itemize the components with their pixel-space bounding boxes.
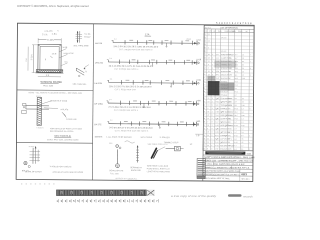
svg-text:a true copy of one of the qual: a true copy of one of the quality [171,194,217,198]
svg-text:¾ BOLTS: ¾ BOLTS [36,126,44,129]
svg-text:2: 2 [212,125,213,127]
svg-text:6: 6 [204,81,205,83]
svg-text:SCALE: HALF SIZE, LOOKING DOWN: SCALE: HALF SIZE, LOOKING DOWN [47,138,79,141]
svg-text:9: 9 [204,121,205,123]
svg-text:2: 2 [204,128,205,130]
svg-text:12: 12 [207,142,209,144]
svg-text:7: 7 [204,145,205,147]
svg-text:SEE DRAWING No. 4122-A: SEE DRAWING No. 4122-A [50,130,74,133]
svg-text:4: 4 [211,145,212,147]
svg-text:4121: 4121 [247,154,253,156]
svg-text:3-54: 3-54 [215,115,218,117]
handwritten microfilm annotation [171,194,253,198]
detail figure: eye rod [109,145,124,176]
svg-text:SAFETY CHAIN & WIRE ROPE DETAI: SAFETY CHAIN & WIRE ROPE DETAILS – PASS.… [204,156,255,159]
wire run row 4 (LH-17B1) [94,99,200,113]
svg-text:8: 8 [212,121,213,123]
svg-text:1.2: 1.2 [242,75,244,77]
svg-text:DRAWN J.E.S. TRACED M.K. CHECK: DRAWN J.E.S. TRACED M.K. CHECKED R.M. AP… [204,166,250,169]
svg-text:8: 8 [211,148,212,150]
svg-text:.55: .55 [241,142,243,144]
svg-text:1.2: 1.2 [241,122,243,124]
svg-text:13: 13 [207,105,209,107]
svg-text:B-12: B-12 [234,118,237,120]
svg-text:11: 11 [208,34,210,36]
panel A jamb detail [73,31,91,47]
svg-text:SPLICE: SPLICE [221,37,226,39]
svg-text:2: 2 [212,68,213,70]
svg-text:9-44: 9-44 [215,142,218,144]
svg-text:B-12: B-12 [235,85,238,87]
svg-text:COPYRIGHT © 2004 NPRHA, John A: COPYRIGHT © 2004 NPRHA, John A. Stephens… [17,5,89,8]
svg-text:EACH END: EACH END [131,169,141,172]
svg-text:SCALE NOTED DATE 6-14-37 APP: SCALE NOTED DATE 6-14-37 APPR. C.H.B. [204,170,241,173]
svg-text:4: 4 [208,67,209,69]
panel A sill section [36,70,63,73]
lower area note line [95,133,203,139]
svg-text:CUT 2 REQD SEE NOTE 4: CUT 2 REQD SEE NOTE 4 [114,69,138,71]
svg-text:SEC. THRU SILL: SEC. THRU SILL [73,84,87,86]
svg-text:SERVING AT: SERVING AT [130,166,142,169]
svg-text:1.2: 1.2 [242,71,244,73]
svg-text:LH21: LH21 [196,121,201,123]
svg-text:B-12: B-12 [234,135,237,137]
svg-text:4: 4 [204,135,205,137]
svg-text:2: 2 [204,67,205,69]
svg-text:8-54: 8-54 [215,135,218,137]
detail figure: heavy pen mark [152,147,166,159]
svg-text:3.4: 3.4 [242,112,244,114]
svg-text:DETAIL OF CATCH: DETAIL OF CATCH [25,170,42,173]
svg-text:CRS: CRS [229,68,232,70]
svg-text:13: 13 [207,118,209,120]
svg-text:1. ALL ENDS TO BE SERVED: 1. ALL ENDS TO BE SERVED [106,136,132,139]
svg-text:2'-11¼: 2'-11¼ [30,54,33,60]
svg-text:1.2: 1.2 [241,145,243,147]
svg-text:SASH STOP: SASH STOP [63,52,74,55]
svg-text:LH-17B1: LH-17B1 [94,104,103,106]
svg-text:2: 2 [212,57,213,59]
svg-text:15: 15 [208,98,210,100]
parts list table [203,26,254,151]
svg-text:WITH TWINE: WITH TWINE [141,137,153,139]
svg-text:5: 5 [205,47,206,49]
svg-text:2.08: 2.08 [242,78,245,80]
svg-text:7: 7 [205,54,206,56]
svg-text:1.2: 1.2 [241,128,243,130]
svg-text:B-12: B-12 [235,91,238,93]
svg-text:23: 23 [207,138,209,140]
secondary note marks [109,141,193,181]
svg-text:20: 20 [207,115,209,117]
svg-text:⅝ ROD: ⅝ ROD [29,145,35,148]
svg-text:PLOW STEEL, RIGHT LAY: PLOW STEEL, RIGHT LAY [147,167,171,170]
panel A frame elevation drawing [26,29,75,87]
svg-text:STL: STL [228,135,231,137]
panel B mullion section detail [21,91,83,141]
svg-text:APPLIES AT EACH SIDE OF DOOR: APPLIES AT EACH SIDE OF DOOR [52,171,83,174]
svg-text:4121: 4121 [241,172,247,176]
svg-text:ST. PAUL, MINN. SHOPS ORD. 22: ST. PAUL, MINN. SHOPS ORD. 2214 CL B 6-3… [204,163,245,166]
detail figure: clip and thimble [164,142,184,151]
svg-text:3: 3 [212,108,213,110]
svg-text:SIZE: SIZE [218,31,221,33]
svg-text:2. SOLDER: 2. SOLDER [160,137,171,139]
svg-text:8: 8 [205,57,206,59]
svg-text:4: 4 [204,105,205,107]
photographic scale ruler bar [56,190,155,196]
svg-text:8: 8 [212,71,213,73]
svg-text:B-12: B-12 [235,71,238,73]
svg-text:24: 24 [207,135,209,137]
left column horizontal divider 2 [16,142,92,145]
svg-text:2'-1¾: 2'-1¾ [42,33,47,36]
svg-text:5: 5 [207,128,208,130]
svg-text:LH18: LH18 [196,59,201,61]
svg-text:3: 3 [204,71,205,73]
svg-text:2.08: 2.08 [241,115,244,117]
svg-text:3: 3 [212,101,213,103]
svg-text:8-29: 8-29 [215,132,218,134]
svg-text:3.4: 3.4 [241,149,243,151]
svg-text:3.4: 3.4 [242,68,244,70]
svg-text:3: 3 [204,101,205,103]
svg-text:LH20: LH20 [196,100,201,102]
wire run row 1 (LH-17A) [95,38,201,52]
svg-text:3-17: 3-17 [215,121,218,123]
svg-text:4: 4 [211,142,212,144]
svg-text:LH-17B: LH-17B [95,83,103,85]
svg-text:CUT 1 REQD PER CAR: CUT 1 REQD PER CAR [115,88,137,91]
svg-text:STL: STL [229,58,232,60]
svg-text:CRS: CRS [229,105,232,107]
svg-text:CRS: CRS [229,98,232,100]
svg-text:1-49: 1-49 [216,68,219,70]
svg-text:1: 1 [212,61,213,63]
svg-text:3-37: 3-37 [216,105,219,107]
svg-text:SPLICE: SPLICE [221,51,226,53]
svg-text:4: 4 [204,74,205,76]
svg-text:5-28: 5-28 [216,111,219,113]
svg-text:4-15: 4-15 [216,57,219,59]
svg-text:9: 9 [205,61,206,63]
svg-text:STL: STL [228,125,231,127]
svg-text:CUT 1 REQD PER CAR SEE NOTE 3: CUT 1 REQD PER CAR SEE NOTE 3 [119,48,152,51]
svg-text:⅛ GLASS: ⅛ GLASS [44,30,53,33]
svg-text:CRS: CRS [228,149,231,151]
svg-text:CRS: CRS [229,101,232,103]
svg-text:LH17: LH17 [197,40,202,42]
svg-text:19: 19 [207,111,209,113]
svg-text:10: 10 [207,101,209,103]
svg-text:EYE BOLT: EYE BOLT [221,91,228,93]
svg-text:2: 2 [208,47,209,49]
svg-text:LIST OF MATERIAL: LIST OF MATERIAL [220,26,239,29]
svg-text:1: 1 [204,94,205,96]
svg-text:WT: WT [246,31,248,33]
svg-text:.55: .55 [242,98,244,100]
svg-text:9-41: 9-41 [216,74,219,76]
svg-text:SH 1 OF 1: SH 1 OF 1 [242,179,250,181]
svg-text:STL: STL [228,118,231,120]
svg-text:G.N.RY. MECH. DEPT. ST. PAUL: G.N.RY. MECH. DEPT. ST. PAUL [204,177,230,180]
svg-text:18: 18 [208,54,210,56]
svg-text:NO PCS: NO PCS [205,27,211,29]
svg-text:2: 2 [212,118,213,120]
svg-text:LH-17C: LH-17C [94,124,102,126]
svg-text:7: 7 [204,115,205,117]
svg-text:8: 8 [212,132,213,134]
svg-text:8: 8 [204,118,205,120]
svg-text:SEC. THRU JAMB: SEC. THRU JAMB [73,44,89,47]
svg-text:2: 2 [212,64,213,66]
svg-text:DETAIL OF EYE: DETAIL OF EYE [109,169,124,172]
svg-text:APPROX 40'-6 OVER ALL: APPROX 40'-6 OVER ALL [115,177,137,180]
svg-text:.55: .55 [242,58,244,60]
svg-text:SUPERSEDES DWG 3987 FILE 17-A: SUPERSEDES DWG 3987 FILE 17-A REV. C [204,173,240,176]
svg-text:¾ DR: ¾ DR [62,46,67,49]
svg-text:6: 6 [204,111,205,113]
svg-text:STRAP: STRAP [84,36,91,39]
callout 17A above row 1 [145,33,192,40]
svg-text:6-29: 6-29 [216,71,219,73]
left column horizontal divider 1 [17,89,93,92]
svg-text:STL: STL [228,122,231,124]
svg-text:LH19: LH19 [196,80,201,82]
svg-text:5 4 8 3 0 1 6 4 2 9 7 5 3 8: 5 4 8 3 0 1 6 4 2 9 7 5 3 8 [216,23,252,25]
faint tick residue below border [21,183,55,186]
svg-text:6: 6 [204,142,205,144]
svg-text:6: 6 [212,115,213,117]
svg-text:1: 1 [205,64,206,66]
svg-text:CRS: CRS [229,74,232,76]
svg-text:1: 1 [211,138,212,140]
svg-text:21: 21 [208,61,210,63]
svg-text:6-49: 6-49 [215,125,218,127]
svg-text:LENGTHS AS TABULATED: LENGTHS AS TABULATED [147,170,171,173]
svg-text:5: 5 [204,78,205,80]
svg-text:3: 3 [205,40,206,42]
drawing sheet border [16,23,254,181]
svg-text:LH-17A: LH-17A [95,42,103,45]
panel C fastener detail [22,145,84,174]
svg-text:Q-1: Q-1 [235,105,238,107]
svg-text:Q-1: Q-1 [234,149,237,151]
svg-text:FULL SIZE: FULL SIZE [110,173,120,175]
svg-text:15: 15 [207,132,209,134]
svg-text:4: 4 [205,44,206,46]
svg-text:N: N [206,31,207,33]
svg-text:3.4: 3.4 [242,61,244,63]
ruler number row [57,199,159,203]
svg-text:5: 5 [204,108,205,110]
svg-text:9: 9 [204,91,205,93]
svg-text:4-35: 4-35 [216,101,219,103]
svg-text:CUT 1 REQD PER CAR SEE NOTE 5: CUT 1 REQD PER CAR SEE NOTE 5 [115,129,148,132]
svg-text:2-4: 2-4 [110,120,113,122]
svg-text:7: 7 [204,84,205,86]
svg-text:5: 5 [204,138,205,140]
svg-text:3-58: 3-58 [216,78,219,80]
svg-text:THIMBLE & CLIP: THIMBLE & CLIP [164,142,179,144]
svg-text:14: 14 [208,57,210,59]
svg-text:7: 7 [207,121,208,123]
svg-text:2'-6: 2'-6 [26,59,28,62]
svg-text:13: 13 [208,41,210,43]
svg-text:5: 5 [211,135,212,137]
svg-text:3.4: 3.4 [241,132,243,134]
svg-text:.55: .55 [241,139,243,141]
svg-text:RAIL: RAIL [64,60,68,63]
svg-text:4-43: 4-43 [215,145,218,147]
svg-text:19: 19 [208,71,210,73]
svg-text:5: 5 [212,128,213,130]
svg-text:9: 9 [207,148,208,150]
svg-text:3'-10¼: 3'-10¼ [47,39,54,42]
svg-text:QT: QT [214,31,216,33]
svg-text:.55: .55 [242,101,244,103]
svg-text:8: 8 [204,88,205,90]
svg-text:2: 2 [205,37,206,39]
svg-text:FULL SIZE: FULL SIZE [43,85,54,87]
svg-text:CUT 2 REQD SEE NOTE 4: CUT 2 REQD SEE NOTE 4 [114,110,138,112]
svg-text:NOTES:: NOTES: [95,136,103,138]
svg-text:3.4: 3.4 [241,135,243,137]
svg-text:WIRE ROPE ⅝ DIA 6x19: WIRE ROPE ⅝ DIA 6x19 [147,165,168,168]
svg-text:2-4: 2-4 [114,39,117,41]
svg-text:⅜ RIVETS 3″ CTRS: ⅜ RIVETS 3″ CTRS [50,100,68,102]
svg-text:2.08: 2.08 [241,125,244,127]
svg-text:6-47: 6-47 [216,54,219,56]
svg-text:B-12: B-12 [235,81,238,83]
title block [203,151,256,181]
svg-text:SERIES 1100 – LETTERED EQUIPT: SERIES 1100 – LETTERED EQUIPT – ORD 2214… [204,160,253,162]
svg-text:POST: POST [36,96,41,98]
left column divider [92,24,93,180]
svg-text:5: 5 [208,64,209,66]
wire run row 3 (LH-17B) [95,78,201,92]
svg-text:1: 1 [205,34,206,36]
svg-text:Q-1: Q-1 [234,138,237,140]
svg-text:3: 3 [204,131,205,133]
svg-text:Ⅱ: Ⅱ [45,59,46,61]
svg-text:B-12: B-12 [235,108,238,110]
svg-text:18: 18 [207,125,209,127]
svg-text:2-4: 2-4 [109,99,112,101]
svg-text:1: 1 [204,125,205,127]
svg-text:2-4: 2-4 [109,58,112,60]
svg-text:8: 8 [207,108,208,110]
svg-text:3: 3 [212,111,213,113]
svg-text:1.2: 1.2 [242,108,244,110]
svg-text:8: 8 [204,148,205,150]
svg-text:6: 6 [212,98,213,100]
boxed note left of title block [197,159,206,179]
svg-text:24: 24 [207,145,209,147]
svg-text:FLOOR LINE: FLOOR LINE [66,119,78,121]
svg-text:2: 2 [212,54,213,56]
svg-text:17A: 17A [145,33,150,36]
svg-text:1.2: 1.2 [242,54,244,56]
svg-text:LH-17A1: LH-17A1 [95,61,104,64]
panel A sill detail [73,65,89,86]
detail figure: served end [130,145,142,172]
svg-text:CRS: CRS [228,115,231,117]
lower notes block [147,165,171,174]
table area divider [203,25,204,181]
svg-text:2-4: 2-4 [110,78,113,80]
svg-text:CRS: CRS [228,128,231,130]
svg-text:3.4: 3.4 [242,64,244,66]
svg-text:Q-1: Q-1 [235,74,238,76]
svg-text:1.2: 1.2 [241,118,243,120]
svg-text:2: 2 [204,98,205,100]
svg-text:B-12: B-12 [234,125,237,127]
svg-text:¼ PLATE: ¼ PLATE [60,108,69,111]
svg-text:6: 6 [205,51,206,53]
svg-text:THIMBLE: THIMBLE [221,95,228,97]
svg-text:B-12: B-12 [234,142,237,144]
svg-text:5-22: 5-22 [215,148,218,150]
svg-text:5: 5 [212,105,213,107]
svg-text:records: records [243,194,253,198]
wire run row 2 (LH-17A1) [95,58,201,72]
svg-text:NOTE – ALL RIVETS ⅜ UNLESS NOT: NOTE – ALL RIVETS ⅜ UNLESS NOTED – SEE D… [29,91,82,94]
wire run row 5 (LH-17C) [94,120,200,134]
svg-text:2.08: 2.08 [242,105,245,107]
